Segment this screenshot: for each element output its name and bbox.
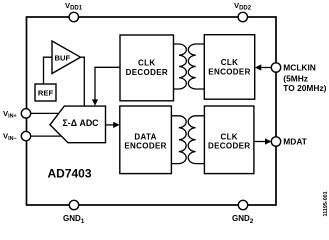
pin GND1 <box>63 200 85 225</box>
wire CLK DECODER to ADC <box>92 67 120 106</box>
chip outline AD7403 <box>27 17 277 205</box>
wire VIN- to ADC <box>26 135 62 137</box>
svg-text:DATA: DATA <box>134 132 156 141</box>
svg-text:11195-001: 11195-001 <box>323 191 329 216</box>
block DATA ENCODER <box>120 106 172 174</box>
block CLK DECODER (bottom) <box>204 106 254 174</box>
wire REF to BUF <box>44 57 53 84</box>
svg-text:AD7403: AD7403 <box>48 167 92 181</box>
svg-text:DECODER: DECODER <box>208 142 250 151</box>
svg-text:REF: REF <box>38 88 54 97</box>
svg-text:MCLKIN: MCLKIN <box>283 62 316 72</box>
transformer T2 secondary coil <box>188 116 204 164</box>
wire ADC to DATA ENCODER <box>106 122 120 128</box>
transformer T1 secondary coil <box>188 44 204 89</box>
svg-text:ENCODER: ENCODER <box>208 68 250 77</box>
svg-text:CLK: CLK <box>138 58 156 67</box>
block CLK DECODER (top) <box>120 35 174 101</box>
pin MDAT <box>271 137 307 147</box>
svg-text:ENCODER: ENCODER <box>124 142 166 151</box>
svg-text:BUF: BUF <box>55 53 71 62</box>
wire MCLKIN to CLK ENCODER <box>255 64 272 70</box>
pin MCLKIN <box>271 62 326 92</box>
wire VIN+ to ADC <box>26 112 59 114</box>
svg-text:CLK: CLK <box>221 58 239 67</box>
pin VDD2 <box>234 1 252 22</box>
svg-text:DECODER: DECODER <box>126 68 168 77</box>
sigma-delta ADC <box>50 106 106 143</box>
pin VDD1 <box>65 1 83 22</box>
pin VIN+ <box>3 109 31 120</box>
transformer T2 primary coil <box>171 116 186 164</box>
pin VIN- <box>3 131 31 142</box>
block CLK ENCODER <box>204 35 254 100</box>
transformer T1 primary coil <box>174 44 187 89</box>
pin GND2 <box>232 200 254 225</box>
svg-text:MDAT: MDAT <box>283 137 307 147</box>
label AD7403 <box>48 167 92 181</box>
reference REF <box>35 84 56 101</box>
figure number <box>323 191 329 216</box>
svg-text:Σ-Δ ADC: Σ-Δ ADC <box>63 118 100 128</box>
svg-text:CLK: CLK <box>220 132 238 141</box>
wire CLK DECODER2 to MDAT <box>254 138 272 144</box>
svg-text:TO 20MHz): TO 20MHz) <box>283 83 326 93</box>
buffer amp BUF <box>52 41 81 74</box>
wire BUF output to ADC <box>81 57 85 106</box>
